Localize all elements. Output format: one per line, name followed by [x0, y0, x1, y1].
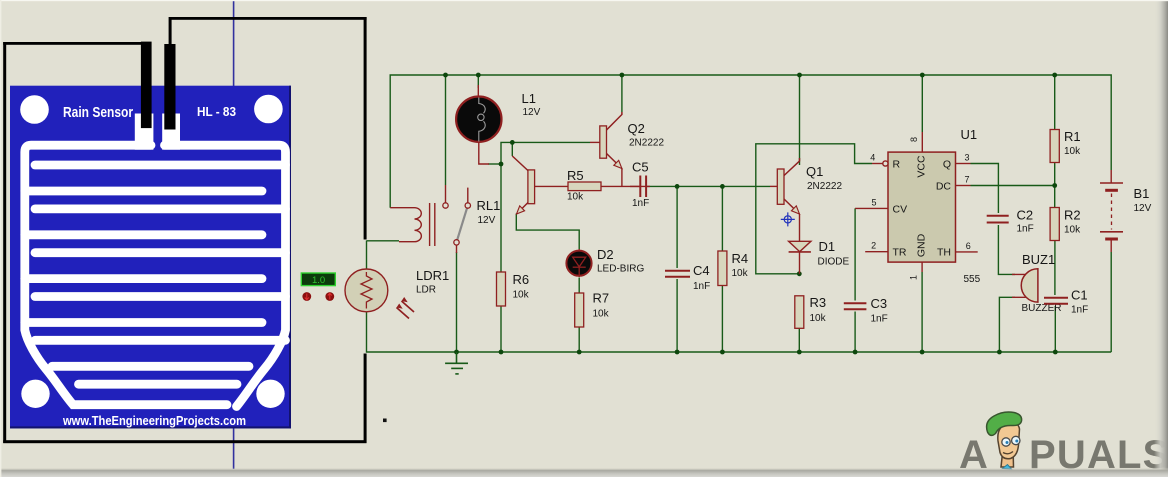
wire: R6 bottom to ground [500, 306, 502, 352]
svg-text:R2: R2 [1064, 208, 1081, 223]
buzzer BUZ1 [1012, 269, 1038, 302]
diode D1 [789, 241, 811, 273]
wire: CV pin to C3 [854, 208, 856, 300]
wire: R1 bottom to node to R2 top [1054, 163, 1056, 208]
svg-text:LED-BIRG: LED-BIRG [597, 264, 644, 275]
rain sensor module HL-83 panel [10, 86, 291, 429]
junction ground at C1 [1053, 350, 1058, 355]
svg-text:8: 8 [909, 137, 919, 142]
svg-text:1nF: 1nF [1071, 305, 1088, 316]
junction ground at U1 GND [920, 350, 925, 355]
svg-text:1.0: 1.0 [312, 275, 325, 286]
svg-text:B1: B1 [1134, 186, 1150, 201]
wire: lamp top lead [477, 75, 479, 88]
capacitor C3 [844, 303, 867, 309]
svg-text:10k: 10k [810, 313, 827, 324]
wire: C4 bottom [676, 279, 678, 352]
svg-text:Rain Sensor: Rain Sensor [63, 105, 133, 121]
svg-text:C2: C2 [1017, 208, 1034, 223]
svg-text:DC: DC [936, 181, 952, 193]
svg-text:CV: CV [893, 203, 908, 215]
electrode pin right (black) [164, 44, 175, 130]
wire: D2-R7 net [578, 278, 580, 294]
svg-text:R6: R6 [513, 272, 530, 287]
svg-text:D1: D1 [819, 239, 836, 254]
svg-text:LDR: LDR [416, 285, 436, 296]
wire: R3 bottom to ground [798, 328, 800, 352]
junction top rail at relay contact [443, 73, 448, 78]
wire: reset net from pin4 to D1 cathode node [756, 144, 872, 274]
junction ground at R7 [577, 350, 582, 355]
blue guide line vertical [233, 0, 235, 469]
left highlight line [0, 0, 1, 477]
top highlight line [0, 0, 1168, 1]
junction ground at R4 [720, 350, 725, 355]
svg-text:10k: 10k [732, 268, 749, 279]
sensor corner hole bottom-left [21, 380, 49, 408]
appuals mascot [987, 412, 1022, 469]
wire: R7 bottom to ground [578, 327, 580, 352]
svg-text:TR: TR [893, 247, 907, 259]
svg-text:3: 3 [964, 153, 969, 163]
lamp L1 [456, 85, 501, 164]
capacitor C2 [987, 216, 1009, 223]
LDR1 [345, 269, 414, 319]
wire: C3 bottom to ground [854, 312, 856, 353]
svg-text:BUZ1: BUZ1 [1022, 252, 1055, 267]
bottom edge shadow [0, 468, 1168, 477]
right edge shadow [1154, 0, 1168, 477]
U1 pin 2 TR stub [865, 251, 888, 253]
wire: node down to R6 [500, 164, 502, 272]
svg-text:1nF: 1nF [871, 314, 888, 325]
svg-text:7: 7 [964, 175, 969, 185]
svg-text:Q2: Q2 [628, 121, 645, 136]
U1 pin 8 VCC stub [921, 132, 923, 152]
svg-text:DIODE: DIODE [818, 257, 850, 268]
relay RL1 coil [390, 203, 435, 246]
junction ground at R6 [499, 350, 504, 355]
indicator red dot right [325, 292, 334, 301]
ground symbol [445, 352, 468, 374]
wire: R1 top to rail [1054, 75, 1056, 130]
junction top rail at R1 [1052, 73, 1057, 78]
battery B1 [1100, 170, 1123, 252]
svg-text:1: 1 [909, 275, 919, 280]
wire: relay common contact to ground [456, 252, 458, 352]
wire: U1 GND pin1 to ground [921, 272, 923, 352]
junction ground at relay [454, 350, 459, 355]
junction D1 cathode / R3 top [797, 271, 802, 276]
svg-text:R1: R1 [1064, 129, 1081, 144]
wire: U1 VCC pin8 to rail [921, 75, 923, 132]
wire: LDR top to frame node [366, 241, 368, 270]
svg-text:Q: Q [943, 159, 951, 171]
svg-text:2N2222: 2N2222 [807, 181, 842, 192]
U1 pin 4 R stub with bubble [872, 161, 888, 166]
svg-text:LDR1: LDR1 [416, 268, 449, 283]
wire: buzzer bottom pin to ground [999, 297, 1015, 352]
svg-text:R3: R3 [810, 295, 827, 310]
wire: C2 to buzzer top pin [998, 225, 1015, 274]
junction ground at buzzer [997, 350, 1002, 355]
svg-text:C1: C1 [1071, 288, 1088, 303]
svg-text:10k: 10k [1064, 225, 1081, 236]
svg-text:10k: 10k [567, 192, 584, 203]
svg-text:12V: 12V [1134, 203, 1152, 214]
indicator red dot left [302, 292, 311, 301]
wire: relay NC contact to top rail [445, 75, 447, 185]
junction C5-C4 node [675, 184, 680, 189]
IC U1 555 timer body [888, 152, 956, 262]
capacitor C5 [630, 176, 650, 198]
relay RL1 contacts [443, 185, 471, 253]
wire: QX emitter to D2 [516, 214, 579, 250]
resistor R4 [718, 251, 727, 286]
resistor R1 [1050, 130, 1059, 163]
wire: relay coil bottom to frame node [367, 240, 400, 242]
sensor corner hole top-left [20, 95, 49, 124]
svg-text:L1: L1 [522, 91, 536, 106]
origin marker (blue crosshair) [781, 212, 795, 226]
svg-text:GND: GND [916, 233, 928, 257]
resistor R2 [1050, 208, 1059, 241]
U1 pin 6 TH stub [956, 251, 978, 253]
wire: ground bottom rail [367, 252, 1112, 352]
resistor R7 [575, 293, 584, 327]
U1 pin 7 DC stub [956, 185, 971, 187]
svg-text:C5: C5 [632, 160, 649, 175]
wire: R4 bottom to ground [721, 286, 723, 353]
junction ground at C4 [675, 350, 680, 355]
wire: sensor frame right vertical upper (black) [364, 17, 367, 240]
U1 pin 3 Q stub [956, 163, 971, 165]
svg-text:D2: D2 [597, 247, 614, 262]
transistor Q1 [770, 158, 800, 241]
wire: sensor frame top-left horizontal (black) [3, 42, 146, 45]
junction top rail at Q2 [620, 73, 625, 78]
U1 pin 1 GND stub [921, 262, 923, 272]
svg-text:TH: TH [937, 247, 951, 259]
svg-text:2N2222: 2N2222 [629, 138, 664, 149]
junction top rail at Q1 [797, 73, 802, 78]
U1 pin 5 CV stub [855, 207, 888, 209]
sensor serpentine trace [25, 145, 286, 406]
svg-text:U1: U1 [961, 127, 978, 142]
svg-text:R7: R7 [593, 291, 610, 306]
svg-text:2: 2 [871, 241, 876, 251]
junction top rail at U1 VCC [920, 73, 925, 78]
svg-text:4: 4 [870, 153, 875, 163]
transistor QX (driver) [512, 156, 568, 214]
indicator box 1.0 [301, 273, 335, 286]
svg-text:12V: 12V [523, 107, 541, 118]
sensor corner hole top-right [254, 95, 283, 124]
svg-text:1nF: 1nF [1017, 224, 1034, 235]
junction Q2 base / QX collector [510, 140, 515, 145]
LED D2 [566, 249, 591, 277]
wire: +12V top rail [390, 75, 1111, 208]
svg-text:555: 555 [964, 274, 981, 285]
wire: lamp bottom to node [488, 163, 501, 165]
wire: DC pin7 to R1-R2 node [971, 185, 1055, 187]
wire: node to Q2 base net [501, 142, 590, 164]
wire: Q output pin3 to C2 [971, 164, 999, 214]
sensor corner hole bottom-right [256, 380, 284, 408]
svg-text:R: R [893, 159, 901, 171]
wire: C4 top [676, 186, 678, 268]
resistor R6 [497, 272, 506, 306]
wire: right electrode stub up [169, 17, 172, 45]
svg-text:RL1: RL1 [477, 198, 501, 213]
capacitor C1 [1044, 298, 1068, 304]
sensor electrode pads (white) [135, 114, 154, 150]
svg-text:1nF: 1nF [693, 281, 710, 292]
electrode pin left (black) [141, 42, 152, 129]
tiny black mark [383, 419, 387, 423]
wire: QX collector up to Q2 base net [511, 142, 513, 156]
wire: R4 top [721, 186, 723, 251]
svg-text:10k: 10k [1064, 146, 1081, 157]
capacitor C4 [665, 271, 690, 277]
svg-text:R5: R5 [567, 168, 584, 183]
junction C5-R4 node [720, 184, 725, 189]
svg-text:R4: R4 [732, 251, 749, 266]
junction DC / R1-R2 node [1052, 183, 1057, 188]
svg-text:1nF: 1nF [632, 198, 649, 209]
junction ground at C3 [853, 350, 858, 355]
wire: C1 bottom to ground [1054, 306, 1056, 352]
svg-text:10k: 10k [513, 290, 530, 301]
wire: C5 right to Q1 base [646, 185, 770, 187]
wire: sensor frame left vertical (black) [3, 42, 6, 443]
svg-text:C3: C3 [871, 296, 888, 311]
junction top rail at lamp [476, 73, 481, 78]
svg-text:HL - 83: HL - 83 [197, 105, 236, 119]
resistor R3 [795, 296, 804, 329]
svg-text:www.TheEngineeringProjects.com: www.TheEngineeringProjects.com [62, 414, 246, 428]
resistor R5 [568, 182, 646, 191]
svg-text:6: 6 [966, 241, 971, 251]
junction ground at R3 [797, 350, 802, 355]
svg-text:C4: C4 [693, 263, 710, 278]
wire: Q2 collector up to rail [621, 75, 623, 112]
svg-text:12V: 12V [478, 215, 496, 226]
svg-text:VCC: VCC [916, 155, 928, 178]
transistor Q2 [590, 112, 622, 186]
wire: sensor frame bottom horizontal (black) [3, 440, 366, 443]
svg-text:5: 5 [871, 197, 876, 207]
wire: Q1 collector to rail [799, 75, 801, 165]
wire: sensor frame right vertical lower (black) [364, 354, 367, 444]
wire: R2 bottom to C1 [1054, 241, 1056, 296]
svg-text:Q1: Q1 [806, 164, 823, 179]
junction lamp/R6/Q2-base node [499, 162, 504, 167]
svg-text:10k: 10k [593, 309, 610, 320]
wire: sensor frame top-right horizontal (black) [169, 17, 366, 20]
